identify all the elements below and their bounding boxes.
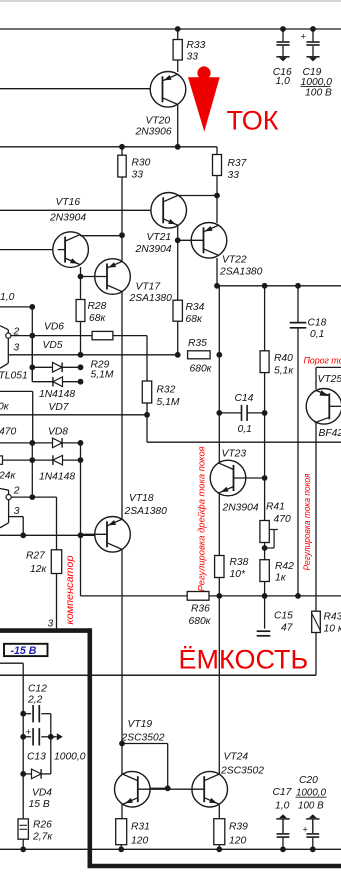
wire VT19 emitter to R31 [121,804,123,819]
wire 415 rail [0,414,147,416]
label R28 68k [88,301,107,324]
label VT22 2SA1380 [219,255,263,278]
diode VD9 reversed [32,455,80,465]
label R34 68k [186,302,205,325]
wire C15 top lead [264,596,266,629]
wire R40 upper lead [264,286,266,351]
wire VT17 collector long [121,292,123,519]
svg-text:VT18: VT18 [129,493,154,504]
resistor R35 [188,351,211,359]
wire 680k corner down [32,391,34,443]
label C14 0,1 [235,393,254,435]
svg-text:2SC3502: 2SC3502 [121,733,165,744]
svg-text:2N3904: 2N3904 [222,503,259,514]
svg-text:VT25: VT25 [318,374,341,385]
transistor VT19 2SC3502 [115,771,168,807]
label R29 5,1M [91,360,114,381]
svg-text:R43: R43 [324,612,341,623]
wire VT20 collector [177,105,179,147]
capacitor C15 [257,631,271,636]
wire pin2 to R27 [56,497,58,550]
resistor R27 [51,550,61,574]
svg-text:-15 В: -15 В [11,645,37,657]
svg-text:0к: 0к [0,402,10,413]
node pin2 bus junction2 [29,494,35,500]
node pin2 bus junction [29,333,35,339]
resistor R36 [187,592,209,601]
node VT16 emitter junction [78,274,84,280]
wire VT23 collector [218,413,220,464]
wire C18 upper lead [297,286,299,323]
node VD8 left junction [29,440,35,446]
wire 596 rail east [219,595,341,597]
svg-text:33: 33 [228,170,240,181]
node VT20 collector junction [175,144,181,150]
wire x23 link [22,663,24,819]
label C19 1000,0 100 B [301,67,333,99]
node C16 rail junction [280,26,286,32]
svg-text:0,1: 0,1 [238,424,252,435]
svg-text:1000,0: 1000,0 [54,752,86,763]
wire VT18 collector [121,550,123,775]
label VT17 2SA1380 [129,282,173,305]
svg-text:2SA1380: 2SA1380 [129,293,173,304]
label C13 1000,0 [27,752,86,763]
transistor VT23 2N3904 [210,460,264,496]
label pin3 U2 [14,506,20,517]
label R41 470 [266,502,291,526]
svg-text:1к: 1к [275,573,287,584]
node VT18 base bus junction [78,532,84,538]
svg-text:3: 3 [48,619,54,630]
label C12 2,2 [27,684,47,706]
svg-text:2,7к: 2,7к [32,832,53,843]
node diodeB right junction [78,457,84,463]
node VD4 left junction [20,771,26,777]
node R31 bottom junction [118,846,124,852]
svg-text:R28: R28 [88,301,107,312]
svg-text:33: 33 [187,52,199,63]
resistor R28 [76,300,85,322]
svg-text:5,1M: 5,1M [157,397,180,408]
svg-text:R39: R39 [229,822,248,833]
label -15V box [4,644,48,657]
wire VT16 collector [80,235,122,237]
svg-text:R36: R36 [191,604,210,615]
wire R36 to bus [209,595,219,597]
wire R41 R42 link [264,543,266,560]
node VT19 collector junction [119,741,125,747]
wire R40 lower lead [264,373,266,413]
svg-text:100 В: 100 В [298,801,324,812]
wire x28 link [80,443,82,535]
wire VT17 emitter lead [121,235,123,261]
svg-text:VD5: VD5 [43,340,63,351]
node C18 596 junction [295,593,301,599]
label 1N4148 pairB [39,472,75,483]
wire R35 bus down [218,286,220,413]
svg-text:24к: 24к [0,471,16,482]
node C13 right junction [48,734,54,740]
wire R41 top lead [264,478,266,521]
transistor VT18 2SA1380 [81,517,131,553]
wire R27 to board [56,574,58,631]
label VD5 [43,340,63,351]
svg-text:2SC3502: 2SC3502 [220,766,264,777]
svg-text:5,1M: 5,1M [91,370,114,381]
label pin3 U1 [14,343,20,354]
resistor R37 [213,155,222,176]
wire R29 to corner [113,335,147,337]
node R41 R42 junction [262,545,268,551]
capacitor C19 polarized [306,29,319,61]
wire R31 bottom [120,845,122,850]
svg-text:R27: R27 [26,551,46,562]
label R37 33 [228,158,248,181]
svg-text:680к: 680к [190,364,213,375]
node pin3 wire junction [20,532,26,538]
resistor stub 24k [0,456,32,464]
svg-text:C20: C20 [299,775,318,786]
svg-text:VT21: VT21 [147,232,172,243]
node R35 right junction [216,352,222,358]
svg-text:68к: 68к [89,313,106,324]
node R32 tap junction [144,412,150,418]
label pin2 U2 [13,486,20,497]
capacitor C13 [23,728,51,745]
svg-text:Регулировка дрейфа тока покоя: Регулировка дрейфа тока покоя [197,446,207,591]
svg-text:компенсатор: компенсатор [64,555,76,624]
label pin2 U1 [13,327,20,338]
label R40 5,1k [274,353,294,377]
transistor VT20 2N3906 [150,72,186,108]
label 680k R35 [190,364,213,375]
capacitor C18 [290,323,307,328]
wire C12 right corner [50,714,52,774]
label VD7 [49,402,70,413]
wire VT19 base [141,787,168,789]
wire VT20 base [0,88,163,90]
svg-text:2SA1380: 2SA1380 [124,506,168,517]
wire VT22 collector [216,258,218,286]
wire VT21 emitter lead [177,225,179,301]
transistor VT24 2SC3502 [168,771,228,807]
svg-text:2,2: 2,2 [27,695,43,706]
node VT22 collector junction [214,283,220,289]
wire R33 top lead [177,29,179,40]
label VT18 2SA1380 [124,493,168,517]
svg-text:120: 120 [229,836,246,847]
svg-text:C14: C14 [235,393,254,404]
resistor R26 [18,819,28,839]
svg-text:VT22: VT22 [222,255,247,266]
wire R39 bottom [218,845,220,850]
label VD8 [48,427,68,438]
svg-text:R30: R30 [132,158,151,169]
node bases junction [165,785,171,791]
node C13 left junction [20,734,26,740]
wire R38 bottom [218,578,220,596]
svg-text:VT16: VT16 [56,197,81,208]
diode VD4 [23,769,51,779]
svg-text:VD7: VD7 [49,402,70,413]
label C20 1000,0 100V [296,775,327,812]
board outline thick bottom [88,864,341,869]
svg-text:BF423: BF423 [319,428,341,439]
diode VD7 symbol [32,367,83,386]
svg-text:VT19: VT19 [128,719,153,730]
wire VT16 emitter elbow [80,267,82,277]
wire R34 bottom lead [177,321,179,355]
svg-text:33: 33 [132,170,144,181]
svg-text:R42: R42 [275,561,294,572]
node C19 rail junction [310,26,316,32]
diode VD5 symbol [29,336,83,373]
red vertical label drift [197,446,207,591]
op-amp U1 TL051 triangle [0,326,11,369]
svg-text:10*: 10* [230,569,246,580]
svg-text:Порог тока: Порог тока [304,356,341,366]
resistor R40 [260,351,269,373]
wire R26 bottom [22,839,24,849]
label Porog toka red [304,356,341,366]
wire R30 bottom lead [121,177,123,235]
node VT22 base junction [175,237,181,243]
terminal arrow right [51,733,63,740]
svg-text:15 В: 15 В [29,799,50,810]
wire input cap node [0,306,32,308]
svg-text:+: + [301,32,307,43]
wire second diode rail [0,459,3,461]
svg-text:1,0: 1,0 [275,801,290,812]
svg-text:Регулировка тока покоя: Регулировка тока покоя [302,473,312,570]
label pin 3 board [48,619,54,630]
wire R34 top lead [177,299,179,301]
svg-text:VD4: VD4 [32,788,52,799]
label VT19 2SC3502 [121,719,165,744]
op-amp U2 triangle [0,489,11,528]
svg-text:3: 3 [14,343,20,354]
wire R37 bottom lead [216,176,218,196]
svg-text:2N3904: 2N3904 [49,213,86,224]
resistor R31 [116,819,127,845]
label R35 [188,338,207,349]
label VT25 [318,374,341,385]
svg-text:VT24: VT24 [224,752,249,763]
node VT23 base junction [262,475,268,481]
resistor R32 [142,381,151,403]
svg-text:R38: R38 [230,557,249,568]
wire C18 lower lead [297,328,299,596]
label 470 stub [0,427,16,438]
label R32 5,1M [157,385,180,409]
node R33 top junction [175,26,181,32]
label TL051 [0,371,28,382]
wire opamp2 pin3 [9,517,24,536]
wire -15V feed [0,662,23,664]
red vertical label kompensator [64,555,76,624]
svg-text:10 к: 10 к [324,624,341,635]
svg-text:R33: R33 [187,40,206,51]
svg-text:12к: 12к [30,564,47,575]
wire opamp2 pin2 [11,496,56,498]
node R40 top junction [262,283,268,289]
wire VT18 base rail [0,534,105,536]
svg-text:R40: R40 [274,353,293,364]
label 0k stub [0,402,10,413]
node C17 bottom junction [280,846,286,852]
capacitor C12 [23,705,51,722]
wire R32 bottom [146,403,148,442]
svg-text:R35: R35 [188,338,207,349]
wire R36 base corner [81,535,188,596]
label R42 1k [275,561,294,584]
svg-text:VT20: VT20 [146,116,171,127]
svg-text:ЁМКОСТЬ: ЁМКОСТЬ [179,645,309,675]
wire top supply rail [0,28,341,30]
wire R28 bottom bus [80,322,82,355]
label VT23 [222,449,247,460]
wire R42 bottom [264,582,266,596]
svg-text:C13: C13 [27,752,46,763]
label R36 680k [189,604,212,628]
svg-text:C12: C12 [28,684,47,695]
svg-text:ТОК: ТОК [227,106,279,136]
wire 286 rail [217,285,341,287]
svg-text:C18: C18 [308,318,327,329]
svg-text:VD6: VD6 [44,322,64,333]
wire opamp pin2 drop [31,307,33,381]
label C20 plus [303,825,308,835]
resistor R42 [260,560,269,582]
label 1,0 input [0,292,15,303]
resistor R30 [118,155,126,177]
label VT16 2N3904 [49,197,86,224]
label R43 10k [324,612,341,635]
resistor R33 [173,40,182,61]
label VT21 2N3904 [135,232,172,255]
capacitor C14 [219,405,264,421]
svg-text:1N4148: 1N4148 [39,389,75,400]
label VT20 2N3906 [135,116,172,138]
resistor R39 [214,819,225,845]
wire R37 top lead [216,147,218,155]
transistor VT16 2N3904 [53,232,89,268]
wire pin2 corner down [146,336,148,381]
svg-text:1N4148: 1N4148 [39,472,75,483]
wire VT23 emitter [218,492,220,556]
wire VT21 base [0,209,163,211]
wire VT24 collector [218,596,220,774]
label R27 12k [26,551,47,576]
svg-text:0,1: 0,1 [310,329,324,340]
label C16 1,0 [273,67,292,87]
wire 680k stub [0,390,33,392]
label BF42 [319,428,341,439]
transistor VT22 2SA1380 [178,223,227,259]
resistor R38 [215,556,224,578]
wire bottom rail [0,848,341,850]
label R31 120 [131,822,150,847]
label C19 plus [301,32,307,43]
resistor R29 [92,331,113,339]
resistor R34 [173,300,182,321]
label VD4 15V [29,788,53,811]
wire R40 to VT23 base [264,413,266,478]
wire R43 bottom corner [0,633,316,676]
wire VT24 emitter to R39 [218,804,220,819]
label C18 0,1 [308,318,327,341]
board outline thick top [0,628,90,633]
wire base link horiz [122,743,168,745]
label 24k [0,471,16,482]
svg-text:R37: R37 [228,158,248,169]
node pin3 R28bus junction [78,352,84,358]
wire VT25 collector [315,423,317,611]
svg-text:2SA1380: 2SA1380 [219,267,263,278]
red arrow TOK pointer [188,66,220,131]
node VD8 right junction [78,440,84,446]
svg-text:R26: R26 [33,820,52,831]
capacitor C20 [306,814,319,849]
wire base link vert [167,744,169,789]
transistor VT21 2N3904 [151,193,187,229]
node R34 R35 junction [175,352,181,358]
wire opamp1 pin3 [8,354,177,356]
transistor VT25 BF42 [306,389,341,425]
wire R30 top lead [121,147,123,155]
svg-text:2N3904: 2N3904 [135,244,172,255]
node R42 596 junction [262,593,268,599]
svg-text:2: 2 [13,486,20,497]
svg-text:+: + [303,825,308,835]
capacitor C16 [276,29,289,61]
node C14 right junction [262,410,268,416]
svg-text:100 В: 100 В [305,88,332,99]
node R36 bus junction [216,593,222,599]
svg-text:R32: R32 [157,385,176,396]
capacitor C17 [276,814,289,849]
svg-text:470: 470 [0,427,16,438]
node VT16 collector junction [119,232,125,238]
wire VT18 emitter [121,518,123,520]
node R37 VT22 junction [214,193,220,199]
node R39 bottom junction [216,846,222,852]
resistor R43 diagonal [312,611,321,632]
label R33 33 [187,40,206,63]
svg-text:5,1к: 5,1к [274,366,294,377]
wire R32 corner east [147,441,341,443]
label TOK red [227,106,279,136]
label R39 120 [229,822,248,847]
wire VT20 collector rail [0,146,217,148]
wire VT16 base [0,249,58,251]
node input junction [29,304,35,310]
label R26 2,7k [32,820,53,843]
label VT24 2SC3502 [220,752,264,777]
red vertical label bias [302,473,312,570]
wire x32 link [31,443,33,497]
label VT23 2N3904 [222,503,259,514]
svg-text:2N3906: 2N3906 [135,127,172,138]
label 1N4148 pairA [39,389,75,400]
label C13 plus [26,727,31,737]
wire VD8 rail [0,442,32,444]
node R30 top junction [119,144,125,150]
label R38 10* [230,557,249,580]
wire R28 top lead [80,277,82,300]
diode VD8 [32,438,80,448]
